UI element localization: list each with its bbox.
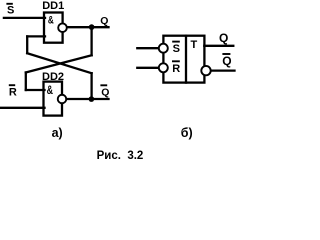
svg-text:Q: Q xyxy=(219,31,228,45)
svg-text:DD2: DD2 xyxy=(42,71,64,83)
svg-text:T: T xyxy=(191,39,198,51)
svg-text:DD1: DD1 xyxy=(42,0,64,12)
svg-text:а): а) xyxy=(52,126,63,140)
svg-text:Q: Q xyxy=(101,86,109,98)
svg-text:&: & xyxy=(48,14,54,26)
svg-text:S: S xyxy=(7,4,14,16)
svg-text:б): б) xyxy=(181,126,193,140)
svg-text:Q: Q xyxy=(222,54,231,68)
svg-text:Рис. 3.2: Рис. 3.2 xyxy=(97,150,144,162)
svg-text:&: & xyxy=(47,85,53,97)
svg-text:S: S xyxy=(173,43,180,55)
svg-text:Q: Q xyxy=(100,15,108,27)
svg-text:R: R xyxy=(172,63,180,75)
svg-text:R: R xyxy=(9,87,17,99)
